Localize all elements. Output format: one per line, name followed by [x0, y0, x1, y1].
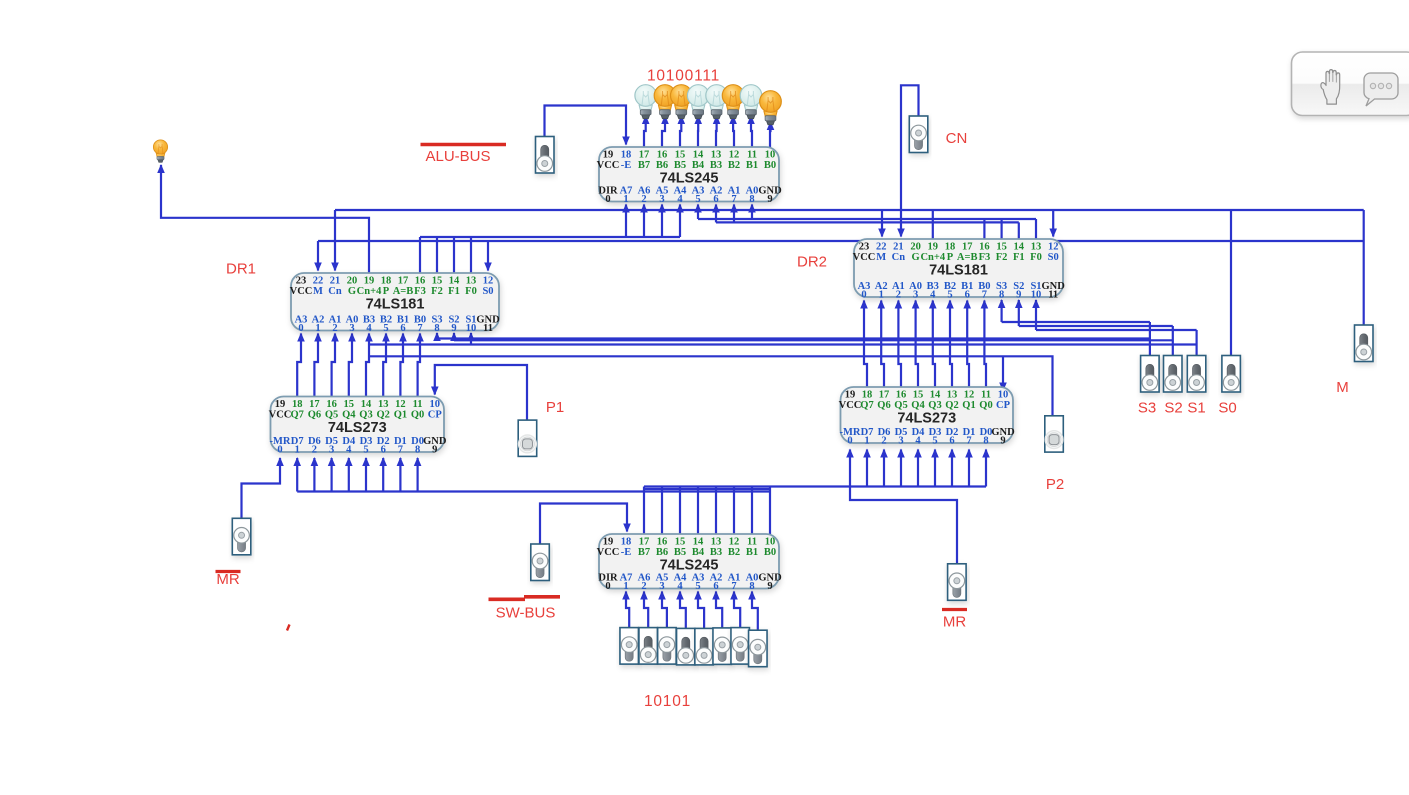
svg-text:9: 9: [767, 194, 772, 205]
svg-text:DR2: DR2: [797, 254, 827, 271]
wire L273 D2 stub: [379, 457, 387, 492]
svg-text:0: 0: [277, 444, 282, 455]
wire input switch 6 to A1: [730, 591, 740, 628]
wire stub DR1 F output: [470, 237, 472, 273]
wire S1 switch riser: [1195, 330, 1197, 356]
wire SW245 B1 riser: [751, 487, 753, 535]
svg-text:VCC: VCC: [597, 160, 620, 171]
svg-text:G: G: [912, 252, 920, 263]
wire R273 D6 stub: [880, 449, 888, 487]
svg-text:18: 18: [945, 242, 956, 253]
svg-text:3: 3: [898, 435, 903, 446]
label value 10100111: [647, 68, 720, 85]
svg-text:P2: P2: [1046, 476, 1064, 493]
svg-text:S3: S3: [1138, 400, 1156, 417]
label DR1: [226, 261, 256, 278]
svg-text:S0: S0: [482, 286, 493, 297]
svg-text:F3: F3: [414, 286, 426, 297]
svg-text:7: 7: [417, 323, 422, 334]
switch S1: [1187, 356, 1206, 393]
wire drop to DR2 S0: [1049, 210, 1057, 238]
wire lamp L1 from pin B0: [767, 121, 775, 147]
wire DR2 S1 branch: [1036, 329, 1197, 331]
wire M switch riser: [1363, 210, 1365, 325]
label S0: [1218, 400, 1236, 417]
label P1: [546, 399, 564, 416]
svg-text:22: 22: [876, 242, 887, 253]
svg-text:17: 17: [309, 399, 320, 410]
svg-text:8: 8: [434, 323, 439, 334]
svg-text:18: 18: [621, 537, 632, 548]
switch MR right: [948, 564, 967, 601]
input switch bit6 (=0): [639, 628, 658, 665]
lamp carry out Cn+4: [153, 140, 167, 162]
svg-text:8: 8: [983, 435, 988, 446]
stray red tick: [287, 625, 290, 631]
wire L273 Q7 to DR1: [297, 333, 305, 397]
input switch bit1 (=1): [731, 628, 750, 665]
svg-text:11: 11: [747, 537, 757, 548]
wire R273 Q7 to DR2: [860, 300, 868, 388]
wire stub DR2 F2: [1000, 219, 1002, 239]
svg-text:11: 11: [747, 150, 757, 161]
svg-text:12: 12: [729, 537, 740, 548]
svg-text:11: 11: [413, 399, 423, 410]
svg-text:18: 18: [381, 276, 392, 287]
svg-text:P1: P1: [546, 399, 564, 416]
svg-text:Q3: Q3: [928, 400, 941, 411]
svg-text:5: 5: [695, 581, 700, 592]
svg-text:11: 11: [1048, 289, 1058, 300]
wire lamp L3 from pin B2: [729, 115, 737, 147]
svg-text:5: 5: [383, 323, 388, 334]
wire L273 D4 stub: [345, 457, 353, 492]
wire stub DR2 F3: [983, 219, 985, 239]
wire DR2 Cn+4 stub: [932, 210, 934, 239]
lamp L3 ALU-BUS bit (state 1): [722, 85, 744, 119]
svg-text:Q7: Q7: [290, 410, 303, 421]
wire SW245 B0 riser: [769, 487, 771, 535]
svg-text:13: 13: [947, 390, 958, 401]
wire net S2 line: [454, 339, 1173, 341]
svg-text:1: 1: [879, 289, 884, 300]
lamp L6 ALU-BUS bit (state 1): [671, 85, 693, 119]
svg-text:ALU-BUS: ALU-BUS: [425, 148, 490, 165]
svg-text:Q7: Q7: [860, 400, 873, 411]
svg-text:B3: B3: [710, 547, 722, 558]
svg-text:14: 14: [361, 399, 372, 410]
svg-text:6: 6: [713, 194, 718, 205]
svg-text:P: P: [947, 252, 954, 263]
svg-text:4: 4: [677, 581, 683, 592]
svg-text:Q0: Q0: [979, 400, 992, 411]
wire drop to DR1 M: [314, 241, 322, 272]
wire DR2 S2 stub: [1015, 299, 1023, 326]
svg-text:7: 7: [731, 194, 736, 205]
wire R273 D4 stub: [914, 449, 922, 487]
wire input switch 7 to A0: [748, 591, 758, 631]
svg-text:10: 10: [765, 537, 776, 548]
wire R273 D7 stub: [863, 449, 871, 487]
svg-text:F2: F2: [431, 286, 443, 297]
svg-text:8: 8: [749, 194, 754, 205]
svg-text:B6: B6: [656, 547, 668, 558]
wire DR1 S1 stub: [467, 332, 475, 345]
svg-text:B3: B3: [710, 160, 722, 171]
wire R273 Q1 to DR2: [963, 300, 971, 388]
svg-text:15: 15: [344, 399, 355, 410]
svg-text:B2: B2: [728, 160, 740, 171]
svg-text:12: 12: [1048, 242, 1059, 253]
svg-text:DR1: DR1: [226, 261, 256, 278]
svg-text:9: 9: [1000, 435, 1005, 446]
label S3: [1138, 400, 1156, 417]
wire input switch 1 to A6: [640, 591, 648, 628]
svg-text:3: 3: [659, 581, 664, 592]
svg-text:3: 3: [349, 323, 354, 334]
svg-text:4: 4: [346, 444, 352, 455]
svg-text:14: 14: [1014, 242, 1025, 253]
svg-text:15: 15: [432, 276, 443, 287]
wire SW245 B7 riser: [643, 487, 645, 535]
svg-text:G: G: [348, 286, 356, 297]
chip U3 74LS273 (DR2 register): [839, 387, 1015, 446]
wire R273 Q3 to DR2: [929, 300, 937, 388]
svg-text:-E: -E: [621, 547, 632, 558]
svg-text:Q1: Q1: [394, 410, 407, 421]
wire lamp L2 from pin B1: [747, 115, 755, 147]
button P2 clock: [1045, 416, 1064, 452]
svg-text:74LS181: 74LS181: [366, 297, 425, 313]
wire R273 Q0 to DR2: [981, 300, 989, 388]
svg-text:Q3: Q3: [359, 410, 372, 421]
svg-text:VCC: VCC: [597, 547, 620, 558]
svg-text:Cn+4: Cn+4: [920, 252, 945, 263]
wire riser to A6: [640, 204, 648, 238]
wire SW245 B4 riser: [697, 487, 699, 535]
svg-text:13: 13: [1031, 242, 1042, 253]
wire L273 D3 stub: [362, 457, 370, 492]
wire DR2 S3 stub: [998, 299, 1006, 322]
wire S3 switch riser: [1149, 322, 1151, 356]
svg-text:19: 19: [275, 399, 286, 410]
wire L273 D1 stub: [397, 457, 405, 492]
svg-text:21: 21: [893, 242, 904, 253]
svg-text:CN: CN: [946, 130, 968, 147]
svg-text:Cn: Cn: [328, 286, 342, 297]
svg-text:15: 15: [675, 150, 686, 161]
wire riser to A0: [748, 204, 756, 220]
svg-text:B5: B5: [674, 547, 686, 558]
svg-text:7: 7: [966, 435, 971, 446]
chip U4 74LS245 (SW-BUS driver): [597, 534, 782, 592]
lamp L1 ALU-BUS bit (state 1): [760, 91, 782, 125]
svg-text:7: 7: [982, 289, 987, 300]
svg-text:4: 4: [366, 323, 372, 334]
svg-text:17: 17: [962, 242, 973, 253]
svg-text:6: 6: [713, 581, 718, 592]
svg-text:6: 6: [381, 444, 386, 455]
wire net P2 CP line: [368, 356, 1052, 416]
svg-text:10: 10: [1031, 289, 1042, 300]
wire riser to A3: [694, 204, 702, 220]
svg-text:VCC: VCC: [290, 286, 313, 297]
svg-text:9: 9: [432, 444, 437, 455]
svg-text:15: 15: [675, 537, 686, 548]
switch M: [1355, 325, 1374, 362]
wire R273 Q6 to DR2: [877, 300, 885, 388]
switch S2: [1164, 356, 1183, 393]
svg-text:A=B: A=B: [393, 286, 414, 297]
svg-text:23: 23: [296, 276, 307, 287]
svg-text:4: 4: [677, 194, 683, 205]
svg-text:23: 23: [859, 242, 870, 253]
svg-text:0: 0: [847, 435, 852, 446]
svg-text:10100111: 10100111: [647, 68, 720, 85]
toolbar panel: [1292, 52, 1409, 116]
svg-text:12: 12: [964, 390, 975, 401]
wire L273 Q1 to DR1: [399, 333, 407, 397]
input switch bit2 (=1): [713, 628, 732, 665]
wire CN switch to DR2 Cn: [897, 85, 918, 237]
svg-text:16: 16: [896, 390, 907, 401]
svg-text:2: 2: [896, 289, 901, 300]
svg-text:F0: F0: [1030, 252, 1042, 263]
svg-text:B7: B7: [638, 160, 650, 171]
wire DR1 S2 stub: [450, 332, 458, 341]
svg-text:0: 0: [605, 581, 610, 592]
label MR right with overline: [942, 610, 967, 631]
wire drop to DR1 Cn: [331, 210, 339, 272]
svg-text:18: 18: [292, 399, 303, 410]
wire stub DR1 F output: [436, 237, 438, 273]
svg-text:4: 4: [915, 435, 921, 446]
svg-text:74LS245: 74LS245: [660, 171, 719, 187]
wire L273 D6 stub: [311, 457, 319, 492]
svg-text:Q4: Q4: [342, 410, 356, 421]
wire R273 Q4 to DR2: [912, 300, 920, 388]
svg-text:2: 2: [312, 444, 317, 455]
wire L273 Q4 to DR1: [348, 333, 356, 397]
wire riser to A2: [712, 204, 720, 223]
svg-text:S1: S1: [1187, 400, 1205, 417]
svg-text:Q5: Q5: [325, 410, 338, 421]
wire SW bus collector: [645, 488, 770, 490]
svg-text:2: 2: [641, 581, 646, 592]
wire S0 switch riser: [1230, 210, 1232, 356]
wire S2 switch riser: [1172, 326, 1174, 356]
wire stub DR1 F3 corner: [419, 237, 421, 273]
svg-text:S0: S0: [1048, 252, 1059, 263]
svg-text:Q1: Q1: [962, 400, 975, 411]
svg-text:9: 9: [451, 323, 456, 334]
svg-text:P: P: [383, 286, 390, 297]
switch -E SW-BUS enable: [531, 544, 550, 581]
svg-text:6: 6: [949, 435, 954, 446]
wire lamp L4 from pin B3: [713, 115, 721, 147]
switch S0: [1222, 356, 1241, 393]
wire R273 D0 stub: [982, 449, 990, 487]
wire riser to A5: [658, 204, 666, 238]
svg-text:8: 8: [415, 444, 420, 455]
svg-text:11: 11: [483, 323, 493, 334]
wire MR switch to R273 -MR: [846, 449, 957, 565]
wire SW245 B5 riser: [679, 487, 681, 535]
wire R273 Q2 to DR2: [946, 300, 954, 388]
svg-text:1: 1: [623, 194, 628, 205]
svg-text:8: 8: [749, 581, 754, 592]
wire bus DR1 F to ALU245 A high: [420, 236, 680, 238]
wire DR2 S1 stub: [1032, 299, 1040, 330]
label S1: [1187, 400, 1205, 417]
wire R273 D1 stub: [965, 449, 973, 487]
svg-text:10101: 10101: [644, 693, 691, 710]
svg-text:4: 4: [930, 289, 936, 300]
svg-text:19: 19: [364, 276, 375, 287]
svg-text:16: 16: [326, 399, 337, 410]
wire input switch 5 to A2: [712, 591, 722, 628]
input switch bit5 (=1): [658, 628, 677, 665]
wire stub DR2 F1: [1018, 222, 1020, 239]
wire SW245 B3 riser: [715, 487, 717, 535]
svg-text:74LS273: 74LS273: [897, 411, 956, 427]
svg-text:9: 9: [1016, 289, 1021, 300]
svg-text:F3: F3: [979, 252, 991, 263]
svg-text:B5: B5: [674, 160, 686, 171]
svg-text:B2: B2: [728, 547, 740, 558]
label CN: [946, 130, 968, 147]
svg-text:VCC: VCC: [839, 400, 862, 411]
switch S3: [1141, 356, 1160, 393]
svg-text:21: 21: [330, 276, 341, 287]
wire lamp L8 from pin B7: [642, 115, 650, 147]
svg-text:S2: S2: [1164, 400, 1182, 417]
svg-text:3: 3: [329, 444, 334, 455]
lamp L8 ALU-BUS bit (state 0): [635, 85, 657, 119]
svg-text:Q6: Q6: [308, 410, 321, 421]
svg-text:12: 12: [483, 276, 494, 287]
wire input switch 3 to A4: [676, 591, 686, 629]
svg-text:B0: B0: [764, 547, 776, 558]
wire DR1 S3 stub: [433, 332, 441, 341]
svg-text:12: 12: [729, 150, 740, 161]
svg-text:Q5: Q5: [894, 400, 907, 411]
svg-text:7: 7: [731, 581, 736, 592]
svg-text:19: 19: [603, 537, 614, 548]
label P2: [1046, 476, 1064, 493]
svg-text:B4: B4: [692, 160, 705, 171]
wire net S1 line: [368, 343, 1196, 345]
svg-text:17: 17: [639, 537, 650, 548]
svg-text:10: 10: [765, 150, 776, 161]
wire riser to A7: [622, 204, 630, 238]
wire L273 Q2 to DR1: [382, 333, 390, 397]
svg-text:8: 8: [999, 289, 1004, 300]
svg-text:Q2: Q2: [945, 400, 958, 411]
wire lamp L7 from pin B6: [661, 115, 669, 147]
svg-text:CP: CP: [996, 400, 1011, 411]
wire R273 Q5 to DR2: [895, 300, 903, 388]
wire DR2 S3 branch: [1002, 321, 1150, 323]
label ALU-BUS with overline: [421, 145, 507, 166]
svg-text:7: 7: [398, 444, 403, 455]
svg-text:3: 3: [659, 194, 664, 205]
wire input switch 2 to A5: [658, 591, 667, 628]
svg-text:F1: F1: [1013, 252, 1025, 263]
svg-text:17: 17: [639, 150, 650, 161]
label MR left with overline: [216, 571, 241, 588]
svg-text:A=B: A=B: [957, 252, 978, 263]
wire stub DR1 F output: [453, 237, 455, 273]
input switch bit0 (=1): [749, 630, 768, 667]
svg-text:20: 20: [910, 242, 921, 253]
lamp L4 ALU-BUS bit (state 0): [706, 85, 728, 119]
svg-text:Cn+4: Cn+4: [357, 286, 382, 297]
label value 10101: [644, 693, 691, 710]
svg-text:VCC: VCC: [853, 252, 876, 263]
wire L273 D7 stub: [293, 457, 301, 492]
svg-text:2: 2: [881, 435, 886, 446]
svg-text:6: 6: [965, 289, 970, 300]
label S2: [1164, 400, 1182, 417]
switch -E ALU-BUS enable: [536, 137, 555, 174]
svg-text:9: 9: [767, 581, 772, 592]
switch MR left: [232, 518, 251, 555]
svg-text:5: 5: [947, 289, 952, 300]
wire stub DR2 F0: [1035, 219, 1037, 239]
svg-text:16: 16: [979, 242, 990, 253]
wire net S0 long line y210: [335, 209, 1364, 211]
svg-text:14: 14: [693, 537, 704, 548]
input switch bit3 (=0): [695, 628, 714, 665]
svg-text:2: 2: [641, 194, 646, 205]
svg-text:14: 14: [930, 390, 941, 401]
svg-text:74LS181: 74LS181: [929, 263, 988, 279]
label DR2: [797, 254, 827, 271]
svg-text:13: 13: [466, 276, 477, 287]
svg-text:11: 11: [981, 390, 991, 401]
svg-text:0: 0: [298, 323, 303, 334]
svg-text:1: 1: [623, 581, 628, 592]
input switch bit7 (=1): [620, 628, 639, 665]
svg-text:0: 0: [861, 289, 866, 300]
svg-text:19: 19: [928, 242, 939, 253]
wire -E bottom 74LS245 from switch: [540, 504, 631, 545]
svg-text:12: 12: [395, 399, 406, 410]
switch CN carry input: [909, 116, 928, 153]
svg-text:1: 1: [295, 444, 300, 455]
wire bus DR2 F to ALU245 A low 1: [698, 218, 1036, 220]
svg-text:B4: B4: [692, 547, 705, 558]
svg-text:15: 15: [996, 242, 1007, 253]
wire SW245 B6 riser: [661, 487, 663, 535]
lamp L2 ALU-BUS bit (state 0): [740, 85, 762, 119]
lamp L5 ALU-BUS bit (state 0): [687, 85, 709, 119]
wire L273 Q0 to DR1: [416, 333, 424, 397]
svg-text:13: 13: [711, 150, 722, 161]
svg-text:CP: CP: [428, 410, 443, 421]
wire SW bus line lower: [297, 490, 770, 492]
wire input switch 0 to A7: [622, 591, 630, 628]
wire riser to A1: [730, 204, 738, 223]
svg-text:6: 6: [400, 323, 405, 334]
lamp L7 ALU-BUS bit (state 1): [654, 85, 676, 119]
wire L273 Q5 to DR1: [331, 333, 339, 397]
svg-text:0: 0: [605, 194, 610, 205]
svg-text:B1: B1: [746, 160, 758, 171]
svg-text:10: 10: [466, 323, 477, 334]
svg-text:14: 14: [449, 276, 460, 287]
